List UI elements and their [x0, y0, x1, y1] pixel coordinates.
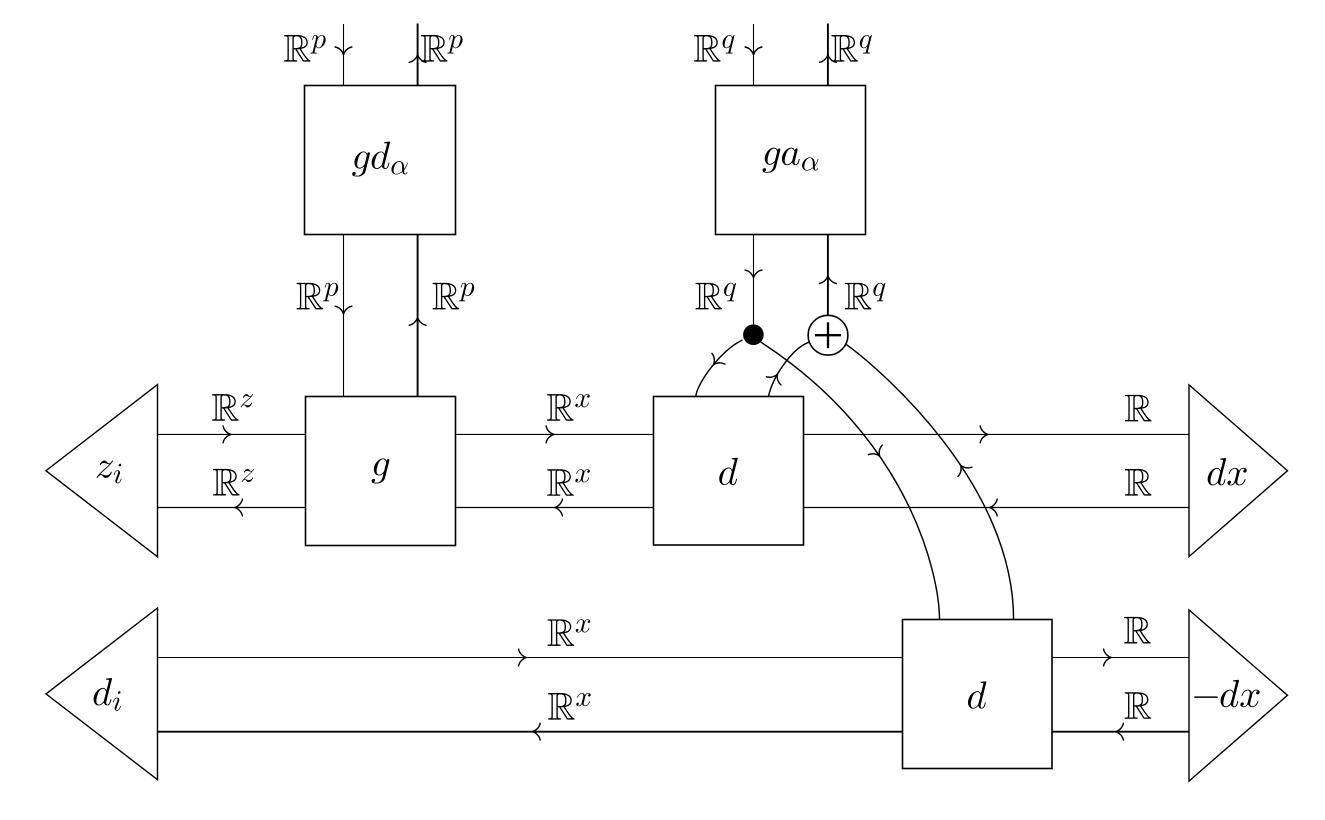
label R^q (lower left of v3) — [696, 283, 737, 310]
box d (bottom) — [903, 620, 1053, 769]
box d (middle) — [654, 397, 804, 546]
wire dx to d (R return) — [804, 499, 1190, 516]
label R^x (bottom, d2 to d_i) — [548, 693, 591, 720]
label R^z (bottom, g to z_i) — [213, 469, 254, 496]
label R^q (lower right of v4) — [845, 283, 886, 310]
label R (bottom, dx to d) — [1125, 469, 1152, 496]
triangle z_i — [46, 385, 158, 557]
label R (top, d to dx) — [1125, 395, 1152, 422]
label R^x (top, g to d) — [547, 394, 590, 421]
box ga_alpha — [716, 86, 866, 235]
wire v1 lower (R^p from gd_alpha down to g) — [335, 235, 352, 397]
wire d2 to d_i (R^x return, thick) — [158, 723, 903, 740]
wire d to g (R^x return) — [456, 499, 654, 516]
wire arc A: copy dot to d (second input) — [696, 340, 743, 396]
wire d_i to d2 (R^x forward) — [158, 649, 903, 666]
wire z_i to g (R^z forward) — [158, 426, 306, 443]
label R (top, d2 to -dx) — [1124, 617, 1151, 644]
label R (bottom, -dx to d2) — [1125, 692, 1152, 719]
triangle dx — [1189, 385, 1288, 557]
wire d to dx (R forward) — [804, 426, 1190, 443]
wire arc B: copy dot down to d2 input — [761, 342, 940, 620]
label R^q (top left of v3) — [694, 35, 735, 62]
label R^p (top right of v2) — [421, 35, 463, 62]
wire v1 upper (R^p into gd_alpha, thin) — [335, 24, 352, 86]
triangle d_i — [46, 608, 158, 780]
wire -dx to d2 (R return, thick) — [1052, 723, 1189, 740]
wire v4 lower (R^q from plus node up to ga_alpha, thick) — [820, 235, 837, 316]
wire v2 upper (R^p out of gd_alpha, thick) — [409, 24, 426, 86]
wire g to d (R^x forward) — [456, 426, 654, 443]
triangle -dx — [1189, 610, 1288, 781]
wire g to z_i (R^z return) — [158, 499, 306, 516]
label R^z (top, z_i to g) — [212, 394, 253, 421]
wire v3 lower (R^q from ga_alpha down to copy dot) — [745, 235, 762, 325]
wire v3 upper (R^q into ga_alpha, thin) — [745, 24, 762, 86]
wire v2 lower (R^p from g up to gd_alpha, thick) — [409, 235, 426, 397]
label R^p (lower left of v1) — [297, 283, 339, 310]
wire v4 upper (R^q out of ga_alpha, thick) — [820, 24, 837, 86]
plus node (circled plus) — [808, 315, 848, 355]
label R^x (top, d_i to d2) — [548, 619, 591, 646]
label R^q (top right of v4) — [831, 35, 872, 62]
label R^p (lower right of v2) — [433, 283, 475, 310]
label R^x (bottom, d to g) — [547, 469, 590, 496]
wire arc C: d output up to plus node — [766, 342, 808, 396]
copy dot node — [743, 324, 764, 345]
box g — [306, 397, 456, 546]
box gd_alpha — [305, 86, 456, 235]
label R^p (top left of v1) — [284, 35, 326, 62]
wire d2 to -dx (R forward) — [1052, 649, 1189, 666]
wire arc D: d2 output up to plus node — [846, 344, 1013, 619]
